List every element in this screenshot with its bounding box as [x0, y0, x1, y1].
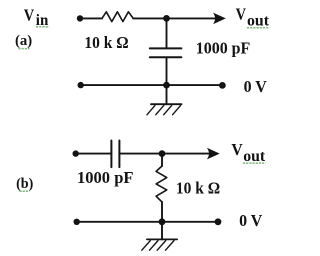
node: input terminal dot bottom (a): [78, 82, 84, 88]
node: junction dot bottom (b): [159, 218, 166, 225]
label: 0 V node (b): [239, 211, 263, 230]
node: input terminal dot top (b): [73, 150, 79, 156]
svg-text:1000 pF: 1000 pF: [196, 39, 251, 58]
node: input terminal dot bottom (b): [74, 219, 80, 225]
arrowhead: output arrow (b): [207, 148, 220, 160]
spellcheck underline under "(b)": [19, 190, 29, 192]
spellcheck underline under "out" (a): [247, 27, 270, 29]
spellcheck underline under "out" (b): [243, 162, 266, 164]
label: Vin node (a): [24, 6, 49, 30]
wire: junction down to resistor top (b): [161, 154, 163, 166]
label: Vout node (b): [231, 140, 265, 165]
svg-text:out: out: [243, 148, 266, 165]
svg-text:10 k Ω: 10 k Ω: [84, 33, 128, 52]
wire: circuit (b) input to capacitor: [76, 153, 112, 155]
node: junction dot top (b): [159, 150, 166, 157]
wire: bottom rail (b): [77, 221, 218, 223]
ground symbol (b): [142, 222, 177, 250]
svg-text:10 k Ω: 10 k Ω: [176, 178, 220, 197]
spellcheck underline under "(a)": [18, 48, 29, 50]
wire: bottom rail (a): [81, 84, 223, 86]
svg-text:(b): (b): [16, 176, 33, 192]
label: resistor value 10 kOhm (b): [176, 178, 220, 197]
node: 0 V terminal dot (a): [219, 82, 226, 89]
svg-text:V: V: [231, 140, 243, 159]
svg-text:1000 pF: 1000 pF: [77, 168, 134, 187]
ground symbol (a): [147, 85, 182, 115]
svg-text:0 V: 0 V: [239, 211, 263, 230]
wire: capacitor to output arrow (b): [119, 153, 208, 155]
node: input terminal dot top (a): [77, 15, 83, 21]
label: capacitor value 1000 pF (a): [196, 39, 251, 58]
label: subfigure (b): [16, 176, 33, 192]
wire: resistor to output arrow (a): [133, 17, 214, 19]
svg-text:(a): (a): [15, 33, 32, 49]
wire: capacitor bottom to ground rail (a): [166, 57, 168, 85]
label: capacitor value 1000 pF (b): [77, 168, 134, 187]
capacitor 1000 pF (a) plates: [150, 48, 182, 57]
node: 0 V terminal dot (b): [215, 218, 222, 225]
node: junction dot top (a): [163, 15, 170, 22]
label: Vout node (a): [236, 5, 270, 30]
label: 0 V node (a): [244, 77, 268, 96]
resistor 10 kOhm (a) zigzag: [102, 12, 133, 22]
resistor 10 kOhm (b) zigzag: [156, 166, 167, 202]
wire: junction down to capacitor top (a): [166, 18, 168, 48]
label: subfigure (a): [15, 33, 32, 49]
spellcheck underline under "in" (a): [36, 26, 49, 28]
svg-text:V: V: [236, 5, 247, 24]
wire: circuit (a) input to resistor: [80, 17, 102, 19]
wire: resistor bottom to ground rail (b): [161, 202, 163, 222]
capacitor 1000 pF (b) plates: [111, 141, 119, 168]
arrowhead: output arrow (a): [213, 13, 226, 25]
node: junction dot bottom (a): [163, 82, 170, 89]
svg-text:0 V: 0 V: [244, 77, 268, 96]
label: resistor value 10 kOhm (a): [84, 33, 128, 52]
svg-text:V: V: [24, 6, 35, 25]
